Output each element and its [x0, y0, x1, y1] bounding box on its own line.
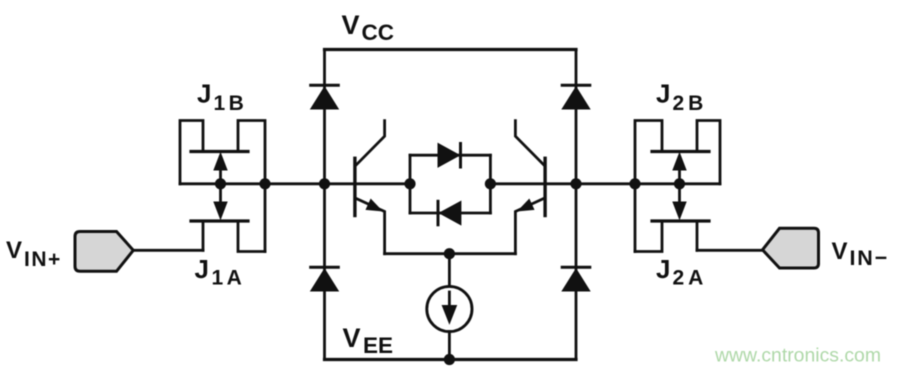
diode D3 bottom-left	[311, 267, 339, 291]
diode D6 clamp bottom	[438, 201, 461, 225]
node B junction dot	[674, 178, 685, 189]
svg-text:2A: 2A	[673, 267, 708, 290]
node A junction dot	[215, 178, 226, 189]
label VEE	[343, 323, 394, 358]
label J2B	[656, 79, 707, 116]
wire left rail vertical	[323, 50, 326, 360]
label J2A	[656, 254, 707, 290]
label J1B	[197, 79, 247, 116]
JFET J2B	[635, 121, 720, 252]
junction dot left rail	[319, 178, 330, 189]
svg-text:V: V	[342, 10, 360, 40]
svg-text:CC: CC	[362, 20, 395, 45]
junction dot emitter bus	[444, 248, 455, 259]
svg-text:J: J	[656, 254, 670, 284]
wire tag to J1A source	[133, 249, 203, 252]
svg-text:IN−: IN−	[850, 246, 889, 270]
wire J2A source to tag	[697, 249, 763, 252]
svg-text:www.cntronics.com: www.cntronics.com	[714, 345, 881, 367]
svg-text:V: V	[343, 323, 361, 353]
svg-text:V: V	[6, 237, 22, 264]
input tag VIN+	[75, 232, 133, 272]
wire center node right (clamp to Q2 base and gate bus)	[490, 182, 720, 185]
JFET J1B	[180, 121, 265, 252]
wire right rail vertical	[575, 50, 578, 360]
label VCC	[342, 10, 395, 45]
svg-text:J: J	[656, 79, 670, 109]
junction dot VEE rail	[444, 354, 455, 365]
diode D4 bottom-right	[562, 267, 590, 291]
diode D5 clamp top	[438, 144, 461, 168]
wire emitter bus	[385, 252, 516, 255]
junction dot clamp left	[404, 178, 415, 189]
label VIN+	[6, 237, 62, 271]
svg-text:J: J	[197, 79, 211, 109]
svg-text:J: J	[195, 254, 209, 284]
label VIN-	[832, 238, 889, 270]
junction dot J1 drain	[259, 178, 270, 189]
svg-text:EE: EE	[363, 333, 393, 358]
JFET J2A	[635, 184, 709, 252]
junction dot J2 drain	[629, 178, 640, 189]
input tag VIN-	[763, 228, 819, 268]
diode D1 top-left	[311, 85, 339, 109]
transistor Q1	[355, 121, 385, 254]
wire VCC top rail	[325, 48, 577, 51]
junction dot right rail	[570, 178, 581, 189]
svg-text:1A: 1A	[212, 267, 246, 290]
svg-text:IN+: IN+	[24, 248, 62, 271]
transistor Q2	[515, 121, 545, 254]
junction dot clamp right	[485, 178, 496, 189]
svg-text:1B: 1B	[214, 92, 248, 115]
svg-text:V: V	[832, 238, 848, 265]
wire VEE bottom rail	[325, 358, 577, 361]
diode D2 top-right	[562, 85, 590, 109]
current source I1	[427, 254, 472, 360]
label J1A	[195, 254, 246, 290]
clamp loop wires	[410, 155, 490, 213]
JFET J1A	[191, 184, 265, 252]
wire center node left (gate bus to Q1 base and clamp)	[180, 182, 410, 185]
svg-text:2B: 2B	[673, 92, 708, 115]
